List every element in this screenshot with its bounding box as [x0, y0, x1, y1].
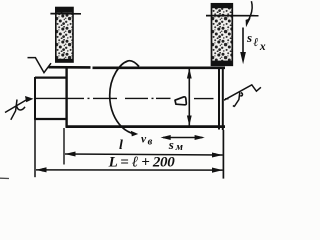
clamp symbol above block (flag + V) [28, 58, 52, 73]
svg-text:м: м [175, 142, 183, 153]
svg-text:l: l [119, 138, 123, 153]
bottom-left frame fragment [0, 177, 9, 179]
L dimension line [36, 167, 223, 173]
feed arrow s_M (double headed) [161, 135, 205, 140]
svg-text:L = ℓ + 200: L = ℓ + 200 [108, 154, 176, 170]
L extension lines [34, 120, 36, 177]
svg-text:в: в [148, 137, 153, 148]
D dimension line [187, 68, 192, 126]
center line (dash-dot) [35, 97, 229, 99]
workpiece cylinder top edge [49, 66, 91, 69]
wheel rotation curved arrow (top right) [246, 1, 253, 27]
right end face double lines [218, 67, 220, 130]
left center symbol (driver) [5, 99, 29, 120]
label s_tx [246, 30, 266, 53]
svg-text:ℓ: ℓ [253, 35, 258, 49]
left journal block [34, 77, 66, 120]
right center symbol [224, 85, 261, 107]
svg-text:s: s [168, 137, 174, 152]
right wheel holder line [206, 15, 259, 17]
workpiece rotation arc v_B [110, 61, 139, 137]
infeed arrow s_tx (vertical) [240, 28, 246, 65]
svg-text:s: s [246, 30, 252, 45]
label v_B [141, 134, 153, 148]
left wheel holder line [50, 13, 81, 15]
right grinding wheel (stippled) [211, 3, 233, 65]
workpiece cylinder bottom edge [66, 125, 226, 128]
l dimension line [65, 152, 223, 158]
svg-text:x: x [259, 41, 266, 53]
l extension line [63, 128, 65, 165]
label D (rotated) [175, 97, 186, 105]
label s_M [168, 137, 183, 153]
step shoulder line [65, 67, 67, 127]
left grinding wheel (stippled) [55, 7, 73, 62]
svg-text:v: v [141, 134, 147, 146]
